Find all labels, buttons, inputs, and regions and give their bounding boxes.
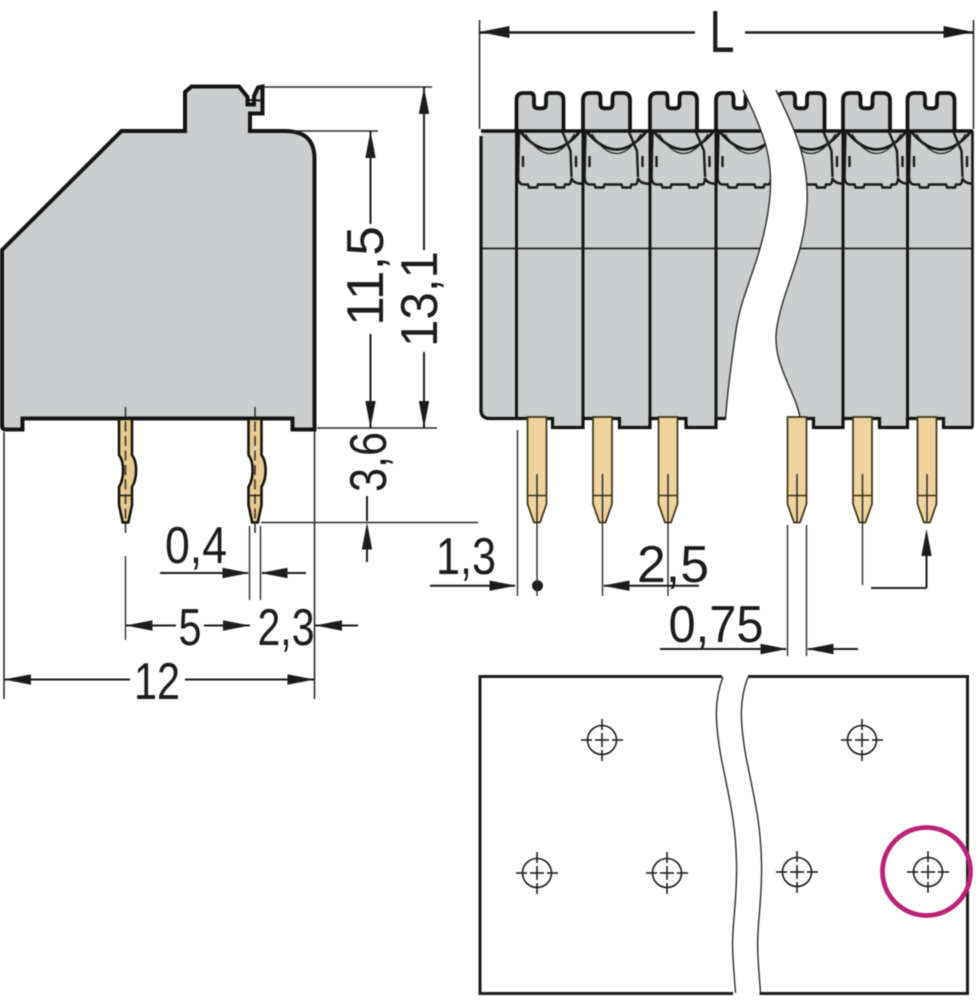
solder pin left (side view) (119, 419, 136, 523)
housing bottom edge / feet (481, 410, 973, 428)
pin left centerline (dashed) (125, 407, 127, 534)
dimension 2,3 (315, 625, 358, 627)
clamp cage unit 6 (845, 132, 846, 177)
housing right edge (971, 131, 974, 428)
dimension 11,5 height (370, 131, 372, 224)
svg-text:0,4: 0,4 (165, 517, 227, 575)
clamp cage unit 5 (779, 132, 780, 177)
clamp cage unit 3 (652, 132, 653, 177)
svg-text:L: L (710, 0, 735, 65)
PCB tear line right (741, 677, 761, 993)
svg-text:0,75: 0,75 (669, 596, 764, 654)
clamp cage unit 1 (518, 132, 519, 177)
solder pin 3 (front view) (659, 417, 678, 523)
drill hole 5 (841, 719, 883, 761)
push button 1 (517, 93, 564, 131)
svg-text:3,6: 3,6 (340, 432, 398, 492)
dimension 2,5 pitch (602, 522, 604, 596)
solder pin 6 (front view) (918, 417, 937, 523)
solder pin 5 (front view) (853, 417, 872, 523)
svg-text:2,5: 2,5 (637, 536, 709, 594)
pole divider at x=516.5 (515, 131, 518, 419)
pin right centerline (dashed) (254, 407, 256, 534)
svg-text:5: 5 (179, 599, 202, 657)
solder pin right (side view) (249, 419, 266, 523)
push button 2 (583, 93, 630, 131)
drill hole 3 (646, 852, 688, 894)
mid line across housing (483, 248, 770, 250)
housing side profile with latch tab (2, 87, 315, 430)
push button 7 (908, 93, 955, 131)
dimension L overall length (479, 20, 481, 129)
extension line body left x=4 (3, 432, 5, 699)
pole divider at x=650 (649, 131, 652, 419)
PCB tear line left (716, 677, 736, 993)
push button 4 (716, 93, 763, 131)
housing top edge (481, 129, 973, 133)
dimension 0,4 pin thickness (160, 572, 248, 574)
pole divider at x=583 (582, 131, 585, 419)
clamp cage unit 7 (909, 132, 910, 177)
housing left edge (479, 136, 482, 412)
clamp cage unit 2 (585, 132, 586, 177)
pin 3 centreline extension (667, 522, 669, 596)
push button 6 (843, 93, 890, 131)
clamp cage unit 4 (718, 132, 719, 177)
dimension 0,75 pin width (787, 525, 789, 656)
solder pin 1 (front view) (528, 417, 547, 523)
PCB outline (480, 677, 733, 994)
solder pin 2 (front view) (593, 417, 612, 523)
drill hole 2 (581, 719, 623, 761)
drill hole 4 (776, 851, 818, 893)
solder pin 4 (front view) (788, 417, 807, 523)
pin 5 centreline extension (862, 522, 864, 585)
reference dot on pin 1 centreline (532, 580, 543, 591)
drill hole 6 (907, 851, 949, 893)
extension line pin tip y=522.5 (261, 522, 478, 524)
svg-text:12: 12 (134, 653, 180, 711)
svg-text:1,3: 1,3 (436, 528, 496, 586)
push button 5 (778, 93, 825, 131)
dimension 13,1 total height (423, 87, 425, 250)
extension line tab top y=87 (264, 86, 432, 88)
highlight circle (magenta) (883, 828, 971, 916)
dimension 12 overall depth (4, 679, 130, 681)
svg-text:11,5: 11,5 (337, 226, 395, 326)
pole divider at x=716 (715, 131, 718, 419)
extension line body right x=314.5 (314, 431, 316, 699)
extension line left pin centre x=125.5 (125, 556, 127, 640)
extension lines pin width x=249.5 and 260.5 (249, 526, 251, 600)
latch notch seat line (249, 99, 261, 102)
tear line right (776, 90, 807, 420)
extension line body top y=131 (292, 130, 378, 132)
break (tear) gap (726, 88, 808, 421)
drill hole 1 (516, 852, 558, 894)
extension line mounting plane y=428 (317, 427, 437, 429)
housing front view body (481, 130, 973, 428)
dimension 1,3 (517, 430, 519, 596)
tear line left (726, 90, 771, 420)
push button 3 (650, 93, 697, 131)
svg-text:2,3: 2,3 (258, 599, 315, 657)
dimension 5 pin spacing (126, 625, 177, 627)
pole divider at x=907.5 (906, 131, 909, 419)
svg-text:13,1: 13,1 (391, 251, 449, 347)
pointer to pin 6 tip (871, 587, 927, 589)
pole divider at x=843 (842, 131, 845, 419)
